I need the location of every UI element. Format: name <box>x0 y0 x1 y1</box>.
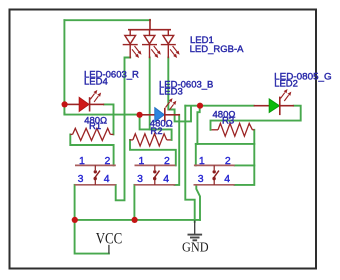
switch SW2 <box>134 155 175 185</box>
wire RGB left cathode down <box>116 58 131 201</box>
svg-text:R1: R1 <box>89 121 101 132</box>
resistor R1 <box>70 128 113 140</box>
wire RGB right cathode down <box>168 58 191 122</box>
junction node bus middle <box>132 217 138 223</box>
svg-text:4: 4 <box>224 173 230 185</box>
wire VCC riser left <box>63 20 65 114</box>
wire to SW3 pin1 <box>195 144 197 166</box>
junction node LED2 net <box>197 103 203 109</box>
svg-text:LED_RGB-A: LED_RGB-A <box>190 44 245 55</box>
svg-text:1: 1 <box>139 155 145 167</box>
wire top to RGB anode <box>64 19 150 21</box>
wire LED4 cathode to R1 <box>104 104 114 134</box>
wire SW1 pin3 to bus <box>74 185 76 220</box>
wire LED2 anode net <box>185 105 253 107</box>
LED1 emission arrows <box>132 46 180 58</box>
svg-text:4: 4 <box>163 173 169 185</box>
junction node LED3 anode <box>137 112 143 118</box>
svg-text:1: 1 <box>199 155 205 167</box>
svg-text:LED4: LED4 <box>84 77 108 88</box>
LED2 green LED <box>254 97 294 116</box>
LED2 emission arrows <box>281 89 292 101</box>
svg-text:4: 4 <box>104 173 110 185</box>
svg-text:1: 1 <box>79 155 85 167</box>
svg-text:R3: R3 <box>222 115 234 126</box>
wire horizontal y=143.9 <box>196 143 255 145</box>
wire node branch down from dot <box>197 106 199 144</box>
wire main horizontal VCC y=114.6 <box>64 113 139 115</box>
wire bottom bus <box>75 219 200 221</box>
svg-text:VCC: VCC <box>96 231 123 248</box>
LED1 RGB pin vertical <box>149 20 151 30</box>
resistor R3 <box>212 123 255 136</box>
wire LED3 anode branch to R2 right <box>140 115 172 140</box>
LED1 green channel diode <box>143 30 157 58</box>
svg-text:2: 2 <box>164 155 170 167</box>
wire LED2 cathode loop to R3 left <box>211 106 301 130</box>
LED1 red channel diode <box>123 30 137 58</box>
LED1 blue channel diode <box>162 30 176 58</box>
LED3 blue LED <box>140 108 180 122</box>
wire R2 left to SW2 pin2 <box>130 140 176 166</box>
wire R1 left to SW1 pin2 <box>70 134 113 165</box>
LED4 emission arrows <box>90 90 101 102</box>
switch SW3 <box>194 155 235 185</box>
wire VCC loop <box>75 220 109 254</box>
svg-text:LED3: LED3 <box>159 86 183 97</box>
LED1 anode bus <box>129 29 170 31</box>
junction node bus left <box>72 217 78 223</box>
LED3 emission arrows <box>166 98 177 110</box>
switch SW1 <box>75 155 116 185</box>
VCC power symbol <box>108 245 110 254</box>
wire LED3 cathode to SW2 pin4 <box>175 115 180 185</box>
wire SW3 pin3 jog to bus <box>196 185 200 220</box>
svg-text:3: 3 <box>137 173 143 185</box>
svg-text:3: 3 <box>198 173 204 185</box>
wire net to GND riser <box>185 106 194 222</box>
wire R3 right to SW3 pin4 <box>235 130 255 185</box>
ground symbol GND <box>188 221 203 241</box>
svg-text:3: 3 <box>78 173 84 185</box>
wire RGB middle cathode down <box>149 58 151 130</box>
LED4 red LED <box>65 97 105 111</box>
wire SW3 pin2 right <box>235 164 255 166</box>
svg-text:GND: GND <box>182 240 209 255</box>
svg-text:R2: R2 <box>150 126 162 137</box>
junction node on VCC riser at LED4 <box>62 101 68 107</box>
wire SW2 pin3 to bus <box>133 185 135 220</box>
svg-text:LED2: LED2 <box>274 78 298 89</box>
resistor R2 <box>130 134 171 146</box>
svg-text:2: 2 <box>225 155 231 167</box>
svg-text:2: 2 <box>105 155 111 167</box>
